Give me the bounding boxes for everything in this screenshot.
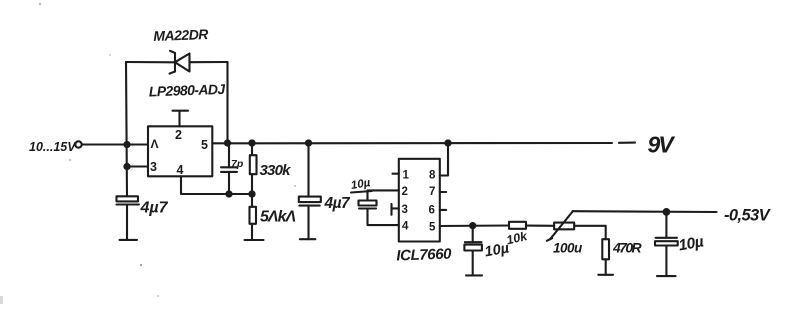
capacitor C3 4u7 [299,143,321,239]
svg-text:10µ: 10µ [677,233,705,254]
svg-text:Λ: Λ [151,137,159,151]
scan speck [0,3,296,304]
svg-text:2: 2 [402,186,408,198]
svg-text:10...15V: 10...15V [29,140,77,154]
node junction adj 7p [226,191,231,196]
label C1 4u7 [140,200,169,217]
label R1 330k [260,162,292,179]
label LP2980-ADJ [149,81,227,100]
node junction rail x308 [306,140,311,145]
pin 1 stub [393,173,399,175]
ground C6 [657,275,676,277]
pin 6 stub [440,209,446,211]
label C4 10u [350,177,371,192]
svg-text:3: 3 [150,160,157,174]
svg-text:1: 1 [403,170,410,182]
op-amp U2 ICL7660 box [399,159,440,242]
antenna tap above pin 2 [173,111,189,127]
node junction rail x252 [249,140,254,145]
capacitor C1 4u7 [117,196,140,240]
ground R4 [598,274,613,276]
label output -0,53V [724,207,772,225]
pin 7 label [429,186,435,198]
svg-text:100u: 100u [553,241,583,256]
underline C4 label [351,191,372,193]
wire pin 3 [127,165,148,167]
pin 3 ground tick [392,204,399,215]
svg-text:ICL7660: ICL7660 [396,246,452,265]
label C3 4u7 [324,195,352,212]
svg-text:5ΛkΛ: 5ΛkΛ [260,209,295,226]
svg-text:470R: 470R [612,240,643,256]
node junction rail x448 [445,140,450,145]
svg-text:4: 4 [402,221,409,233]
label C5 10u [483,240,511,260]
wire output line [573,210,717,213]
potentiometer P1 wiper [547,211,573,241]
svg-text:7p: 7p [231,158,244,170]
label 10...15V [29,140,77,154]
svg-text:5: 5 [429,222,436,234]
pin 1 label [403,170,410,182]
pin 5 label [429,222,436,234]
svg-text:6: 6 [429,205,435,217]
pin 2 label [175,128,182,142]
svg-text:2: 2 [175,128,182,142]
pin 5 label [201,138,208,152]
wire diode loop right vertical [226,62,228,143]
wire adj line pin 4 [181,176,252,194]
svg-text:4: 4 [177,163,184,177]
svg-text:4µ7: 4µ7 [140,200,169,217]
svg-text:330k: 330k [260,162,292,179]
ground R2 [245,239,264,241]
wire pin 8 to rail [440,143,448,176]
svg-text:3: 3 [402,204,408,216]
capacitor C4 10u pump [359,190,399,225]
wire 10k to pot [526,225,554,227]
capacitor C6 10u [655,212,678,276]
pin 2 label [402,186,408,198]
label P1 100u [553,241,583,256]
diode D1 zener [170,51,190,74]
pin 8 label [429,170,436,182]
svg-text:LP2980-ADJ: LP2980-ADJ [149,81,227,100]
wire pot to R4 [574,226,606,239]
pin 3 label [402,204,408,216]
pin 4 label [177,163,184,177]
label R2 51k [260,209,295,226]
wire diode loop top right [190,61,228,63]
svg-text:7: 7 [429,186,435,198]
capacitor C5 10u [464,226,482,276]
node junction pin3 [124,164,129,169]
potentiometer P1 100u body [554,223,574,230]
resistor R4 470R [602,239,609,275]
svg-text:5: 5 [201,138,208,152]
wire 9V rail [212,142,635,145]
pin 3 label [150,160,157,174]
ground C1 [120,239,138,241]
svg-text:MA22DR: MA22DR [153,26,209,44]
label R3 10k [505,229,529,248]
svg-text:-0,53V: -0,53V [724,207,772,225]
pin 4 label [402,221,409,233]
wire pin 5 output [440,224,509,227]
pin 7 stub [440,191,446,193]
ground C3 [300,238,315,240]
wire left vertical (diode loop left / down to C1) [126,62,127,196]
label 9V [648,132,676,158]
svg-text:8: 8 [429,170,436,182]
resistor R1 330k [250,143,257,194]
node junction adj 330k [249,191,254,196]
label MA22DR [153,26,209,44]
pin 1 label [151,137,159,151]
op-amp U1 LP2980 box [148,126,212,176]
wire input to pin1 [82,143,148,145]
label 7p [231,158,244,170]
resistor R3 10k [509,222,526,229]
node junction output cap [664,209,670,215]
node junction rail x227 [225,140,230,145]
ground C5 [466,274,482,276]
svg-text:9V: 9V [648,132,676,158]
label C6 10u [677,233,705,254]
wire diode loop top left [126,61,175,63]
label R4 470R [612,240,643,256]
node junction pin5 cap [470,223,475,228]
node input terminal [75,141,81,147]
pin 6 label [429,205,435,217]
resistor R2 51k [250,194,257,240]
svg-text:4µ7: 4µ7 [324,195,352,212]
node junction input [124,142,129,147]
svg-text:10k: 10k [505,229,529,248]
label ICL7660 [396,246,452,265]
capacitor C2 7p [221,143,237,194]
